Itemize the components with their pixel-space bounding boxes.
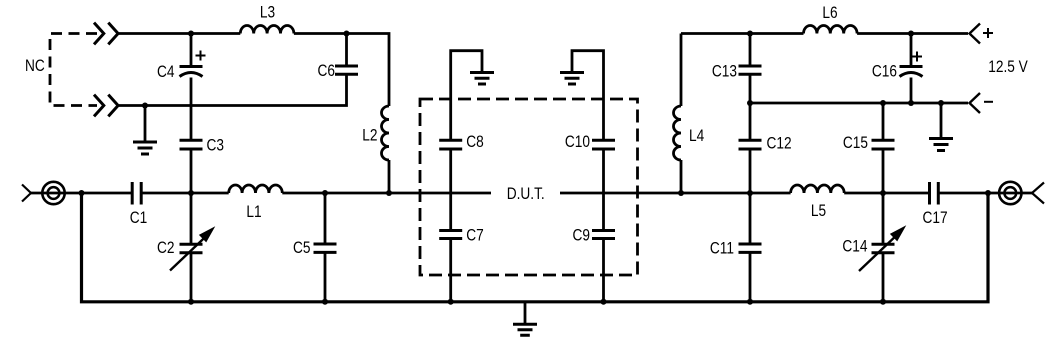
svg-text:C17: C17 [922,209,947,227]
svg-text:C6: C6 [318,62,335,80]
plus terminal sign [983,28,993,38]
capacitor C12 [749,103,752,140]
wire NC dashed loop [50,34,97,106]
wire top-right rail with L4 corner [681,32,804,35]
capacitor C10 [592,140,615,149]
svg-text:L6: L6 [822,4,837,22]
svg-text:L1: L1 [246,203,261,221]
node L4 bottom [678,190,684,196]
node C15 top [880,100,886,106]
inductor L3 [240,25,294,33]
capacitor C11 [749,193,752,302]
capacitor C4 polarized [190,34,193,67]
ground DUT left [470,73,494,85]
svg-text:C14: C14 [842,237,867,255]
svg-text:C16: C16 [872,62,897,80]
wire main C1 to L1 [141,192,229,195]
wire top rail L6 to plus terminal [857,32,968,35]
svg-text:NC: NC [25,57,45,75]
svg-text:C4: C4 [157,63,174,81]
wire DUT right top with ground arm [572,51,604,141]
chevron plus terminal [970,24,981,44]
svg-text:D.U.T.: D.U.T. [507,185,545,203]
DUT dashed box [420,99,638,275]
node output [985,190,991,196]
coax connector input [42,182,64,204]
wire mid rail right [750,102,968,105]
node C9 bottom [601,299,607,305]
wire C10 to C9 [602,149,605,231]
inductor L5 [791,185,845,193]
wire C17 to output [938,192,1032,195]
plus sign C4 [196,51,206,61]
svg-text:L5: L5 [811,202,826,220]
svg-text:C7: C7 [466,226,483,244]
ground DUT right [560,73,584,85]
capacitor C3 [180,140,203,149]
node input [79,190,85,196]
svg-text:C12: C12 [767,134,792,152]
junction nodes [79,31,992,305]
inductor L2 [382,106,390,160]
node C3 main [188,190,194,196]
capacitor C6 [345,34,348,67]
node C13 bottom [747,100,753,106]
capacitor C5 [324,193,327,302]
wire top rail L3 to L2 corner [294,34,389,107]
wire lower-left rail with corner to C6 [119,74,347,105]
node C6 top [344,31,350,37]
svg-text:C9: C9 [573,226,590,244]
coax connector output [999,182,1021,204]
node L2 bottom [386,190,392,196]
wire C7 to bottom rail [449,239,452,302]
inductor L4 [680,34,683,107]
input chevron [22,185,31,202]
wire top-left rail [119,32,240,35]
capacitor C7 [439,231,462,239]
wire main line left [31,192,132,195]
inductor L6 [804,25,858,33]
wire DUT left top with ground arm [451,51,482,141]
connector chevrons lower NC [94,95,118,117]
node C5 bottom [322,299,328,305]
node C7 bottom [448,299,454,305]
node C16 top [908,31,914,37]
svg-text:C13: C13 [712,62,737,80]
svg-text:C10: C10 [565,133,590,151]
svg-text:C15: C15 [843,134,868,152]
minus terminal sign [984,101,993,103]
capacitor C14 variable [882,193,885,302]
node C13 top [747,31,753,37]
wire C9 to bottom rail [602,239,605,302]
node NC ground [142,103,148,109]
ground NC [144,106,147,143]
capacitor C16 polarized [910,34,913,67]
node C12 main [747,190,753,196]
capacitor C13 [749,34,752,67]
svg-text:L4: L4 [689,127,704,145]
output chevron [1032,183,1044,204]
svg-text:12.5 V: 12.5 V [988,58,1028,76]
svg-text:C5: C5 [293,239,310,257]
capacitor C2 variable [190,193,193,302]
capacitor C1 [132,182,141,205]
svg-text:C1: C1 [130,209,147,227]
svg-text:C3: C3 [207,136,224,154]
wire L2 bottom [388,160,391,193]
arrow C14 [859,237,895,271]
wire main L1 to DUT [282,192,491,195]
node C15 main [880,190,886,196]
connector chevrons upper NC [94,23,118,45]
ground minus rail [940,103,943,139]
svg-text:C8: C8 [466,133,483,151]
svg-text:C2: C2 [157,239,174,257]
svg-text:C11: C11 [710,239,734,257]
ground bottom center [524,302,527,324]
node C2 bottom [188,299,194,305]
chevron minus terminal [970,93,981,113]
node C5 top [322,190,328,196]
wire left vertical + bottom rail + right vertical [82,193,989,302]
plus sign C16 [912,52,922,62]
inductor L1 [229,185,283,193]
capacitor C8 [439,140,462,149]
svg-text:L2: L2 [362,126,377,144]
node C11 bottom [747,299,753,305]
wire main line right of DUT [560,192,791,195]
node C4 top [188,31,194,37]
node C14 bottom [880,299,886,305]
capacitor C9 [592,231,615,239]
node minus ground [938,100,944,106]
wire main L5 to C17 [844,192,929,195]
svg-text:L3: L3 [260,3,275,21]
arrow C2 [170,237,205,270]
capacitor C15 [882,103,885,140]
capacitor C17 [930,182,939,205]
wire C8 to C7 [449,149,452,231]
node C16 bottom [908,100,914,106]
